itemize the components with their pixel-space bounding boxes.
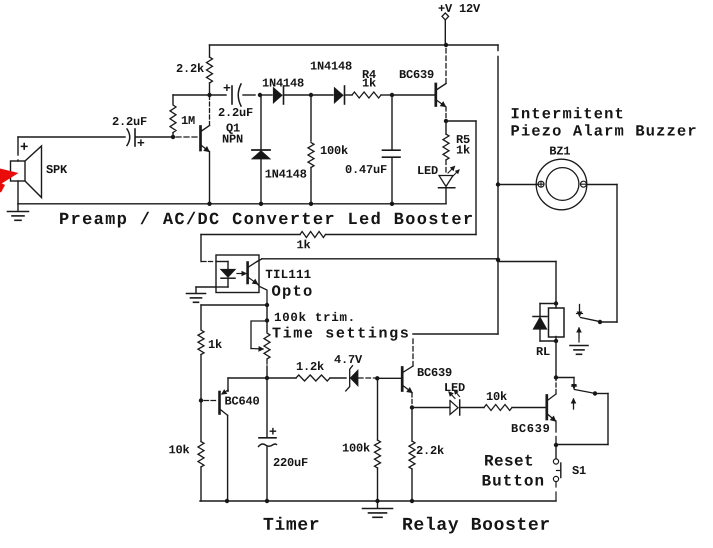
relay contact NO to buzzer — [577, 305, 618, 323]
wire buzzer to relay contact — [587, 185, 618, 323]
diode D1 1N4148 — [263, 79, 311, 105]
junction 2.2k / Q1 collector / C2 — [207, 93, 211, 97]
diode flyback (across relay coil) — [533, 304, 556, 342]
junction opto emitter / trimmer — [265, 303, 269, 307]
wire latch loop — [556, 394, 608, 445]
relay contact NC arm (to ground) — [577, 328, 581, 344]
resistor 1k (opto drive, on loop wire) — [201, 232, 476, 249]
wire 1.2k net — [228, 378, 296, 391]
optocoupler TIL111 — [216, 255, 312, 305]
resistor 10k (timer) — [169, 401, 204, 502]
wire timer ground rail — [200, 500, 556, 502]
wire loop to opto anode — [201, 235, 215, 262]
transistor BC640 PNP — [204, 390, 259, 501]
junction contact / buzzer wire — [598, 320, 602, 324]
resistor R5 1k — [443, 121, 470, 160]
junction driver collector / relay / contact2 — [554, 375, 558, 379]
resistor R4 1k — [352, 70, 392, 98]
section label Relay Booster — [403, 517, 549, 534]
ground (opto) — [187, 287, 217, 302]
junction C1 / 1M / Q1 base — [171, 135, 175, 139]
wire opto collector to bus — [257, 259, 498, 262]
section label Timer — [264, 517, 319, 530]
label Time settings — [272, 327, 408, 341]
zener diode 4.7V — [334, 355, 375, 391]
junction 220uF / rail — [265, 499, 269, 503]
resistor 1k (timer charge) — [198, 330, 222, 401]
speaker SPK — [11, 137, 68, 198]
wire input coupling net (speaker to C1) — [18, 136, 125, 138]
red input arrow — [0, 169, 19, 193]
resistor 2.2k (pulldown) — [409, 408, 444, 502]
wire relay feed — [498, 262, 556, 304]
wire emitter to LED — [412, 407, 450, 409]
wire C2 to D1 — [260, 94, 272, 96]
junction bus / buzzer — [496, 182, 500, 186]
ground (relay contact) — [570, 346, 588, 355]
LED (relay indicator) — [445, 383, 465, 415]
junction 100k / rail — [375, 499, 379, 503]
capacitor 0.47uF — [346, 95, 400, 204]
label Intermitent Piezo Alarm Buzzer — [512, 107, 696, 136]
junction 2.2k / rail — [410, 499, 414, 503]
junction 100k / rail — [309, 202, 313, 206]
junction Q1 emitter / rail — [207, 202, 211, 206]
capacitor 2.2uF C1 (input coupling) — [113, 117, 172, 146]
wire +V supply rail — [210, 44, 499, 46]
wire booster loop (emitter to 1k wire) — [446, 121, 476, 235]
wire +V bus down right side — [413, 45, 498, 334]
junction R4 / 0.47uF / BC639 base — [390, 93, 394, 97]
ground (speaker) — [8, 204, 29, 221]
junction 1k / BC640 base — [199, 398, 203, 402]
resistor 100k (timer pulldown) — [343, 378, 381, 501]
section label Preamp / AC/DC Converter Led Booster — [60, 212, 472, 228]
resistor 2.2k (Q1 collector load) — [177, 45, 213, 95]
buzzer BZ1 — [536, 147, 587, 210]
wire opto emitter net — [201, 305, 267, 329]
junction relay top — [554, 301, 558, 305]
junction shunt diode / rail — [259, 202, 263, 206]
label 100k trim. — [275, 312, 353, 321]
capacitor 220uF (timing, polarized) — [259, 378, 308, 501]
wire speaker to ground rail — [17, 181, 19, 204]
junction emitter / LED / 2.2k — [410, 405, 414, 409]
wire node to C2 — [210, 94, 227, 96]
junction relay bottom — [554, 339, 558, 343]
resistor 100k (rectifier load) — [308, 95, 348, 204]
diode 1N4148 shunt (to ground rail) — [252, 95, 306, 204]
junction zener / 100k / BC639 base — [375, 376, 379, 380]
diode D2 1N4148 — [311, 62, 352, 105]
power +V 12V terminal — [439, 4, 481, 45]
label Reset Button — [483, 455, 543, 486]
resistor 10k (relay driver base) — [461, 391, 546, 410]
junction C2 / D1 / shunt diode — [258, 93, 262, 97]
wire relay to driver collector — [555, 341, 557, 378]
wire base lead (dashed) — [176, 136, 198, 138]
wire bus to buzzer — [498, 184, 538, 186]
ground (timer) — [363, 501, 393, 517]
capacitor 2.2uF C2 (pump, polarized) — [219, 84, 255, 116]
relay contact NO (latch) — [556, 378, 593, 410]
transistor Q1 NPN — [201, 97, 243, 204]
wire R4 to BC639 base — [392, 94, 435, 96]
junction D1 / 100k — [309, 93, 313, 97]
wire preamp ground rail — [18, 203, 446, 205]
junction BC640 collector / rail — [225, 499, 229, 503]
wire D1 out to D2 — [311, 94, 333, 96]
resistor 1.2k — [296, 361, 346, 381]
junction 0.47uF / rail — [390, 202, 394, 206]
transistor BC639 (led booster driver) — [400, 47, 446, 119]
junction opto collector / bus / relay feed — [496, 258, 500, 262]
junction emitter / R5 / booster loop — [444, 119, 448, 123]
switch S1 reset button — [553, 445, 585, 501]
junction contact2 / latch loop — [593, 391, 597, 395]
relay RL coil — [537, 304, 564, 356]
junction emitter / latch / S1 — [554, 443, 558, 447]
transistor BC639 (oscillator) — [402, 336, 451, 406]
LED (booster indicator) — [418, 160, 459, 204]
resistor 1M (feedback) — [170, 95, 209, 137]
wire zener to BC639 base — [378, 377, 401, 379]
junction trimmer / 1.2k / 220uF — [265, 376, 269, 380]
junction +V rail / BC639 collector — [444, 43, 448, 47]
trimmer 100k (time settings) — [251, 305, 270, 378]
transistor BC639 (relay driver) — [512, 379, 556, 445]
